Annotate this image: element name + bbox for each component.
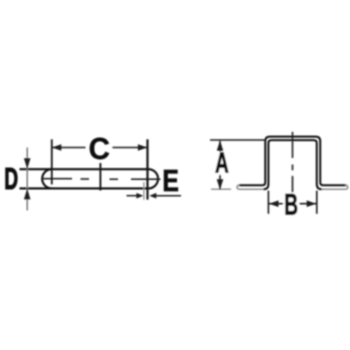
A dimension line and arrows (219, 141, 221, 189)
outer surface (239, 137, 346, 186)
dashed centerline of slot (41, 178, 161, 181)
left hole / cap arc (42, 169, 52, 188)
right flange bottom + rounded cap (lighter) (322, 185, 348, 189)
D dimension line (vertical, arrows pointing inward) (26, 148, 28, 211)
C dimension line with arrows (52, 144, 148, 151)
A bottom extension line (lighter) (211, 188, 231, 190)
inner surface (263, 140, 321, 189)
right hole / cap arc (147, 169, 158, 188)
vertical dash-dot centerline (292, 132, 294, 193)
mid tick between holes (99, 163, 101, 191)
slot bottom edge (extends left as D extension line) (20, 187, 148, 189)
svg-text:D: D (4, 162, 18, 196)
E dimension: left tick, dim line with inward arrows (143, 182, 145, 200)
B dimension: extension lines below legs (267, 191, 269, 214)
A dimension: top extension line (210, 139, 267, 141)
label B (white backed) (283, 193, 299, 215)
B dimension line and outward arrows (269, 203, 316, 205)
svg-text:A: A (215, 148, 229, 180)
right hole center vertical / C + E extension line (146, 139, 148, 199)
left hole center vertical / C extension line (51, 139, 53, 184)
svg-text:E: E (162, 164, 179, 198)
svg-text:C: C (89, 132, 110, 166)
label A (white backed) (214, 152, 231, 175)
left flange bottom + rounded cap (lighter) (237, 185, 263, 189)
svg-text:B: B (284, 188, 298, 221)
slot top edge (extends left as D extension line) (20, 168, 148, 170)
